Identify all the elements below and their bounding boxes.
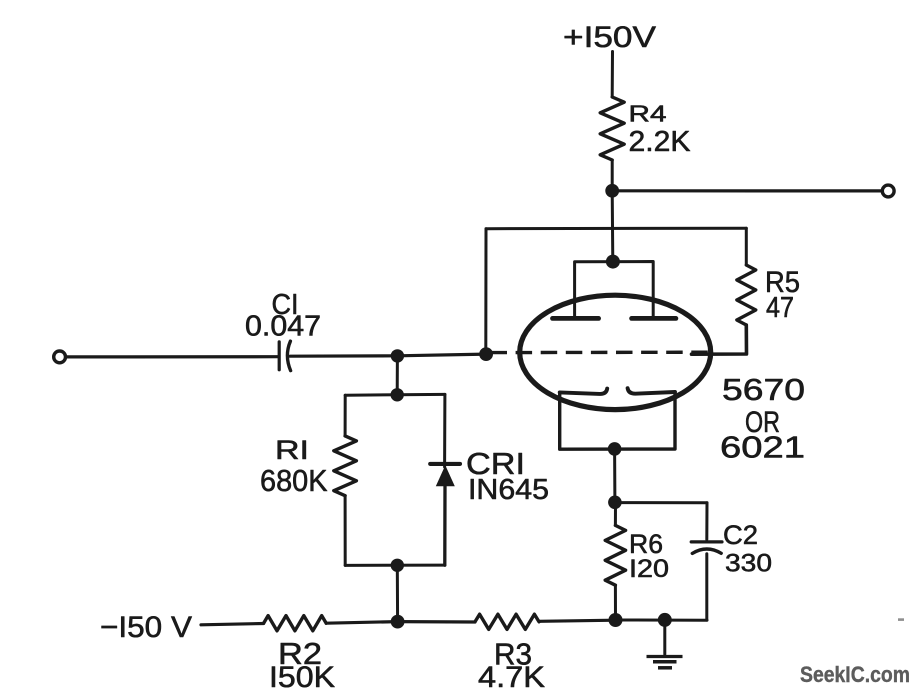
ground junction dot <box>658 613 672 627</box>
resistor R1 <box>334 436 357 496</box>
wire R4 to node A <box>611 160 614 191</box>
rail node junction dot <box>391 615 405 629</box>
wire -150V lead <box>201 624 264 625</box>
wire C2 lower lead <box>705 554 708 620</box>
R1/CR1 box top junction dot <box>391 388 404 401</box>
node A junction dot <box>605 184 619 198</box>
wire input terminal to C1 <box>66 355 277 358</box>
resistor R5 <box>737 265 756 325</box>
svg-text:−I50 V: −I50 V <box>100 611 192 644</box>
wire +150V lead down to R4 <box>611 52 614 98</box>
svg-text:0.047: 0.047 <box>245 311 321 343</box>
node B junction dot <box>391 349 404 362</box>
ground symbol <box>647 655 683 658</box>
grid electrode (dashed) <box>491 351 710 355</box>
grid node junction dot <box>479 347 493 361</box>
wire R1/CR1 box top <box>345 393 445 397</box>
cathode junction dot <box>608 442 622 456</box>
svg-text:+I50V: +I50V <box>563 21 656 54</box>
capacitor C1 <box>278 342 281 370</box>
wire C1 to node B <box>290 354 397 358</box>
svg-text:4.7K: 4.7K <box>478 661 545 692</box>
cathode electrodes and base box <box>560 392 675 449</box>
wire node B to grid node <box>397 354 486 356</box>
svg-text:2.2K: 2.2K <box>629 126 692 158</box>
plate electrode right <box>632 316 676 321</box>
wire R1 lower lead <box>344 496 347 566</box>
wire grid loop top <box>486 227 746 231</box>
resistor R3 <box>475 614 539 629</box>
capacitor C2 bottom plate <box>692 549 721 553</box>
stray scan mark <box>898 618 904 621</box>
wire R6 lower lead <box>614 585 617 620</box>
R1/CR1 box bottom junction dot <box>391 559 404 572</box>
wire R3 to cathode network <box>539 620 616 621</box>
resistor R6 <box>605 525 625 585</box>
svg-text:C2: C2 <box>723 520 758 550</box>
wire node A to output terminal <box>612 189 881 192</box>
svg-text:6021: 6021 <box>720 430 805 465</box>
wire R1/CR1 box bottom <box>345 564 445 567</box>
wire rail node to R3 <box>398 620 475 624</box>
svg-text:330: 330 <box>725 550 772 578</box>
wire R5 lower lead to tube grid right <box>692 325 747 354</box>
wire C2 upper lead <box>705 503 708 540</box>
svg-text:R4: R4 <box>629 101 667 127</box>
tube plate cap junction dot <box>606 255 620 269</box>
output terminal <box>882 185 894 197</box>
resistor R2 <box>264 616 327 631</box>
wire R5 upper lead <box>745 228 748 265</box>
wire R1 upper lead <box>344 395 347 436</box>
input terminal <box>54 351 66 363</box>
svg-text:47: 47 <box>766 292 794 324</box>
svg-text:RI: RI <box>275 435 309 465</box>
svg-text:SeekIC.com: SeekIC.com <box>800 662 910 687</box>
wire R6/C2 box bottom <box>616 619 708 622</box>
diode CR1 anode lead <box>443 394 446 467</box>
wire R2 to rail node <box>326 622 397 624</box>
R6/C2 box top junction dot <box>608 496 622 510</box>
ground lead <box>663 620 666 654</box>
wire node A down to plate junction <box>611 191 615 262</box>
wire box bottom to bottom rail <box>396 565 399 621</box>
plate electrode left <box>553 316 599 321</box>
resistor R4 <box>600 97 624 160</box>
wire R6/C2 box top <box>616 501 708 504</box>
diode CR1 arrow <box>436 465 455 486</box>
capacitor C2 top plate <box>691 540 722 543</box>
wire grid loop left vertical <box>484 229 487 354</box>
wire cathode to R6/C2 node <box>613 449 616 502</box>
wire R6 upper lead <box>614 503 617 526</box>
tube envelope 5670/6021 <box>520 295 711 409</box>
svg-text:I50K: I50K <box>269 661 335 692</box>
diode CR1 lower lead <box>443 485 447 565</box>
R6/C2 box bottom junction dot <box>609 613 623 627</box>
tube plate cap connector <box>575 262 654 318</box>
svg-text:680K: 680K <box>260 463 328 498</box>
wire node B down to R1/CR1 box <box>396 356 399 395</box>
diode CR1 cathode bar <box>430 462 460 466</box>
svg-text:IN645: IN645 <box>468 474 549 506</box>
svg-text:I20: I20 <box>629 555 669 583</box>
svg-text:5670: 5670 <box>722 372 805 407</box>
